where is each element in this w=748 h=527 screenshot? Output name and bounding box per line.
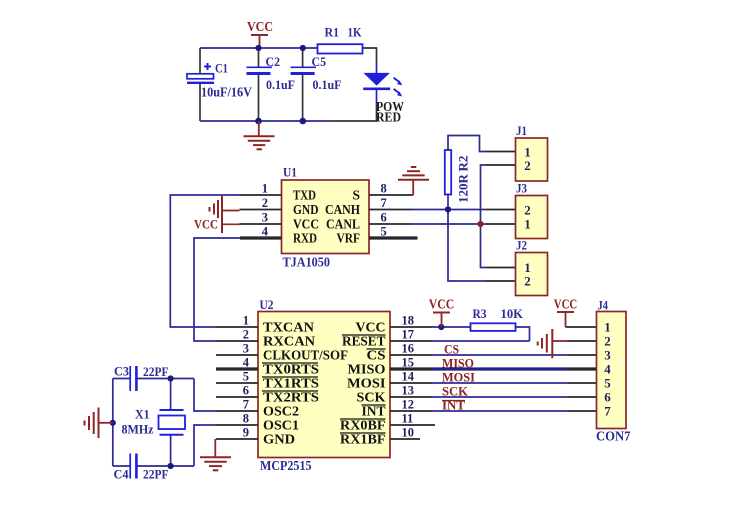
svg-text:7: 7	[604, 404, 611, 419]
svg-text:C4: C4	[114, 467, 129, 482]
svg-text:MOSI: MOSI	[442, 370, 475, 385]
svg-text:C5: C5	[312, 54, 327, 69]
svg-text:1: 1	[262, 182, 268, 196]
svg-text:1K: 1K	[348, 25, 363, 40]
svg-text:16: 16	[402, 342, 415, 356]
svg-text:GND: GND	[293, 202, 319, 217]
svg-text:RX0BF: RX0BF	[340, 418, 386, 433]
svg-text:J3: J3	[516, 181, 527, 196]
svg-text:RX1BF: RX1BF	[340, 432, 386, 447]
svg-text:4: 4	[604, 362, 611, 377]
svg-text:2: 2	[604, 334, 611, 349]
svg-text:TX0RTS: TX0RTS	[263, 362, 319, 377]
svg-text:J1: J1	[516, 123, 527, 138]
svg-text:0.1uF: 0.1uF	[266, 77, 295, 92]
svg-text:3: 3	[604, 348, 611, 363]
svg-text:X1: X1	[135, 407, 150, 422]
svg-text:2: 2	[524, 203, 531, 218]
svg-text:INT: INT	[442, 398, 465, 413]
svg-text:1: 1	[604, 320, 611, 335]
svg-text:CANL: CANL	[326, 217, 360, 232]
svg-text:VCC: VCC	[554, 298, 578, 313]
svg-text:VCC: VCC	[293, 217, 319, 232]
svg-text:R1: R1	[325, 25, 340, 40]
svg-text:22PF: 22PF	[143, 364, 169, 379]
svg-text:VCC: VCC	[356, 320, 386, 335]
svg-text:OSC2: OSC2	[263, 404, 299, 419]
svg-text:R2: R2	[456, 156, 471, 172]
svg-text:C2: C2	[266, 54, 281, 69]
svg-text:CLKOUT/SOF: CLKOUT/SOF	[263, 348, 348, 363]
svg-text:CANH: CANH	[325, 202, 360, 217]
svg-text:7: 7	[381, 196, 387, 210]
svg-text:15: 15	[402, 356, 415, 370]
svg-text:RED: RED	[376, 110, 401, 125]
svg-text:6: 6	[604, 390, 611, 405]
svg-text:TXD: TXD	[293, 188, 316, 203]
svg-text:5: 5	[604, 376, 611, 391]
svg-text:12: 12	[402, 398, 415, 412]
svg-text:5: 5	[381, 225, 387, 239]
svg-text:13: 13	[402, 384, 415, 398]
svg-text:RXCAN: RXCAN	[263, 334, 315, 349]
svg-text:MOSI: MOSI	[347, 376, 386, 391]
svg-text:4: 4	[262, 225, 269, 239]
svg-text:VCC: VCC	[247, 20, 273, 35]
svg-text:2: 2	[524, 274, 531, 289]
svg-text:CS: CS	[444, 342, 459, 357]
svg-text:10uF/16V: 10uF/16V	[201, 85, 252, 100]
svg-text:TXCAN: TXCAN	[263, 320, 314, 335]
svg-text:GND: GND	[263, 432, 295, 447]
svg-text:CON7: CON7	[596, 429, 631, 444]
svg-text:RXD: RXD	[293, 231, 317, 246]
svg-text:120R: 120R	[456, 173, 471, 203]
svg-text:RESET: RESET	[342, 334, 386, 349]
svg-text:TJA1050: TJA1050	[283, 255, 331, 270]
svg-text:2: 2	[243, 328, 249, 342]
svg-text:17: 17	[402, 328, 415, 342]
svg-text:18: 18	[402, 314, 415, 328]
svg-text:1: 1	[524, 217, 531, 232]
svg-text:OSC1: OSC1	[263, 418, 299, 433]
svg-text:0.1uF: 0.1uF	[313, 77, 342, 92]
svg-text:R3: R3	[473, 306, 487, 321]
svg-text:J2: J2	[516, 238, 527, 253]
svg-text:2: 2	[524, 158, 531, 173]
svg-text:C3: C3	[114, 364, 129, 379]
svg-text:VCC: VCC	[429, 298, 455, 313]
svg-text:VRF: VRF	[337, 231, 361, 246]
svg-text:MISO: MISO	[348, 362, 386, 377]
svg-text:22PF: 22PF	[143, 467, 169, 482]
svg-text:TX1RTS: TX1RTS	[263, 376, 319, 391]
svg-text:8: 8	[243, 412, 249, 426]
svg-text:7: 7	[243, 398, 249, 412]
svg-text:11: 11	[402, 412, 414, 426]
svg-text:6: 6	[243, 384, 249, 398]
svg-text:10K: 10K	[501, 306, 524, 321]
svg-text:5: 5	[243, 370, 249, 384]
svg-text:SCK: SCK	[442, 384, 469, 399]
svg-text:MCP2515: MCP2515	[260, 458, 312, 473]
svg-text:10: 10	[402, 426, 415, 440]
svg-text:1: 1	[243, 314, 249, 328]
svg-text:8: 8	[381, 182, 387, 196]
svg-text:14: 14	[402, 370, 415, 384]
svg-text:SCK: SCK	[357, 390, 387, 405]
svg-text:C1: C1	[215, 61, 228, 76]
svg-text:6: 6	[381, 211, 387, 225]
svg-text:4: 4	[243, 356, 250, 370]
svg-text:INT: INT	[362, 404, 386, 419]
svg-text:CS: CS	[367, 348, 386, 363]
svg-text:MISO: MISO	[442, 356, 474, 371]
svg-text:VCC: VCC	[194, 217, 218, 232]
svg-text:J4: J4	[598, 298, 609, 313]
svg-text:3: 3	[262, 211, 268, 225]
svg-text:3: 3	[243, 342, 249, 356]
svg-text:U1: U1	[283, 165, 297, 180]
svg-text:9: 9	[243, 426, 249, 440]
svg-text:2: 2	[262, 196, 268, 210]
svg-text:U2: U2	[260, 297, 274, 312]
svg-text:S: S	[352, 188, 360, 203]
svg-text:8MHz: 8MHz	[122, 422, 154, 437]
svg-text:TX2RTS: TX2RTS	[263, 390, 319, 405]
